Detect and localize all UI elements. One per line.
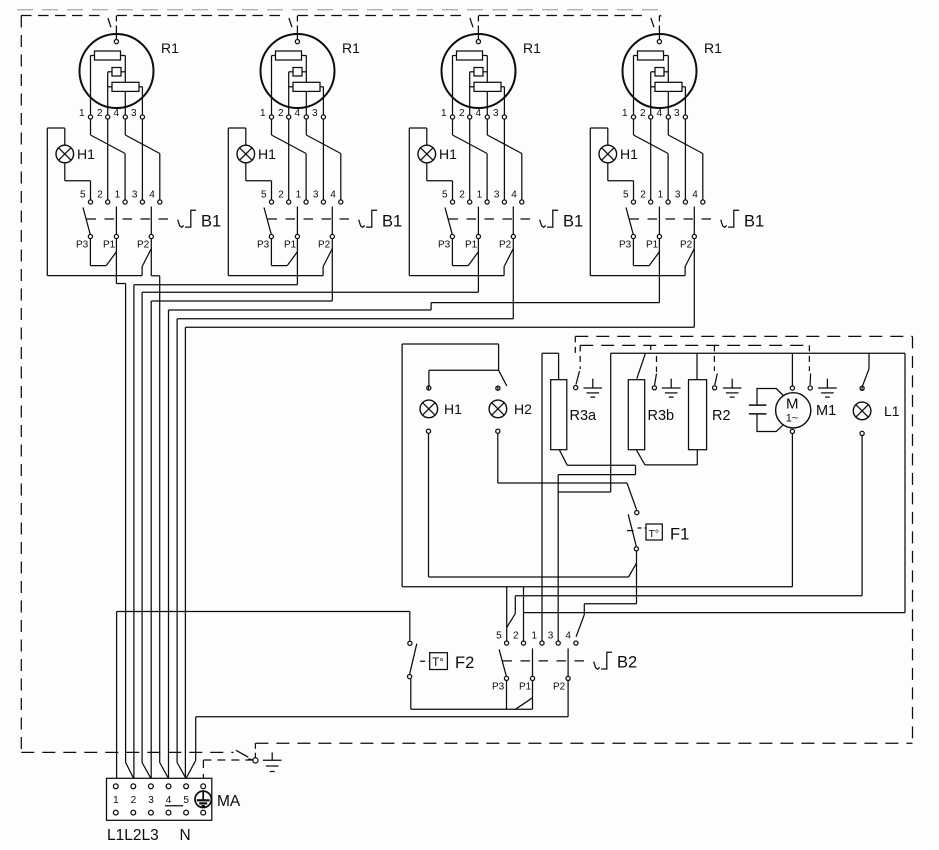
wire oven top tie (R3b R2 M1 L1) [611,353,905,492]
switch B1 contact P2 blade [150,207,152,235]
oven dashed enclosure top [575,335,912,337]
node H1 bottom [426,429,430,433]
wire pin3 to switch terminal 3 [141,119,143,200]
svg-text:R1: R1 [523,40,541,56]
svg-text:3: 3 [131,108,137,119]
wire lamp top to P2 branch [409,128,513,276]
switch B1 contact P1 blade [477,207,479,235]
node M1 top [790,386,794,390]
node H1 top [427,386,431,390]
svg-text:4: 4 [476,108,482,119]
resistor R1 element 1 [453,51,488,60]
svg-text:4: 4 [511,190,517,201]
node pin 2 [106,115,110,119]
node pin 4 [666,115,670,119]
hotplate R1 body [623,34,697,108]
bus line 8 (burner4 P2) [184,327,186,778]
wire burner2 P2 to bus [151,239,332,301]
node M1 bottom [790,429,794,433]
wire neutral rail to MA1 [117,612,410,779]
wire oven tie right drop [524,353,906,612]
wire lamp top to P2 branch [228,128,332,276]
svg-text:B1: B1 [382,213,402,231]
wire oven common rail [402,586,792,588]
switch B1 mechanical link (dashed) [87,218,171,220]
switch contact for lamp H2 [499,370,507,386]
MA bridge 4-5 [165,805,183,807]
svg-text:L1: L1 [884,403,900,419]
resistor R1 element 3 [470,82,505,91]
wire pin4 to switch terminal 4 [668,119,703,200]
node P3 [269,234,273,238]
wire pin3 to switch terminal 3 [503,119,505,200]
svg-text:P1: P1 [646,240,659,251]
node switch terminal 5 [631,200,635,204]
svg-text:4: 4 [330,190,336,201]
svg-text:4: 4 [657,108,663,119]
switch B2 contact P1 blade [532,648,534,676]
node B2 terminal 2 [521,641,525,645]
node P3 [450,234,454,238]
node switch terminal 2 [468,200,472,204]
node pin 3 [140,115,144,119]
svg-text:F2: F2 [455,654,474,672]
wire R3b bottom [636,450,697,465]
switch B1 actuator symbol [359,210,377,227]
node MA col1 terminals [113,784,118,815]
wire M1 top feed [791,353,793,386]
svg-text:3: 3 [674,108,680,119]
lamp H1 (oven) [420,400,438,418]
switch B1 actuator symbol [540,210,558,227]
heater R2 [689,380,707,450]
node P3 [88,234,92,238]
ground symbol near R3b [662,379,681,397]
wire pin4 vertical [667,56,669,115]
node pin 4 [123,115,127,119]
node pin 2 [649,115,653,119]
svg-text:2: 2 [459,190,465,201]
ground symbol near MA [263,752,282,771]
earth branch contact on border [236,750,258,763]
wire pin3 [322,87,324,115]
svg-text:R3a: R3a [570,408,598,424]
svg-text:P3: P3 [438,240,451,251]
capacitor C (motor) [749,389,784,432]
wire lamp bottom to terminal 5 [427,163,453,200]
wire earth dashed to oven (inner bottom dashed) [255,743,912,757]
thermostat F1 [627,510,662,550]
node P2 [511,234,515,238]
svg-text:1: 1 [113,795,119,806]
wire R3 bottoms to feed tie [558,491,611,493]
node switch terminal 1 [123,200,127,204]
switch B1 contact P2 blade [331,207,333,235]
node switch terminal 2 [287,200,291,204]
svg-text:5: 5 [623,190,629,201]
node switch terminal 3 [683,200,687,204]
bus line 7 (burner3 P2) [176,319,178,763]
svg-text:H1: H1 [258,146,276,162]
wire burner3 P1 to bus [142,239,478,293]
hotplate R1 body [261,34,335,108]
bus line 5 (burner1 P2) [159,276,161,763]
svg-text:R1: R1 [704,40,722,56]
bus line 2 (burner2 P1) [133,285,135,779]
wire pin4 vertical [305,56,307,115]
switch B1 contact P2 blade [693,207,695,235]
wire pin1 [90,56,92,115]
node B2 terminal 1 [540,641,544,645]
node L1 bottom [860,431,864,435]
wire pin1 to switch terminal 1 [272,119,307,200]
hotplate R1 body [80,34,154,108]
wire R3a bottom [558,450,635,642]
svg-text:H2: H2 [514,401,532,417]
svg-text:R1: R1 [161,40,179,56]
resistor R1 element 2 [470,68,488,77]
node pin 2 [287,115,291,119]
node B2 terminal 3 [556,641,560,645]
node B2 terminal 5 [505,641,509,645]
wire pin1 to switch terminal 1 [91,119,126,200]
switch B1 contact P3 blade [264,208,271,235]
switch B1 contact P3 blade [626,208,633,235]
node MA col2 terminals [131,784,136,815]
svg-text:B1: B1 [744,213,764,231]
node pin 4 [304,115,308,119]
svg-text:2: 2 [459,108,465,119]
wire top hob dashed bus [21,15,661,17]
svg-text:3: 3 [494,190,500,201]
terminal block MA [107,778,212,820]
node pin 4 [485,115,489,119]
node MA col6 terminals [201,784,206,815]
wire funnel bus7 to MA col5 [177,763,186,778]
node switch terminal 3 [140,200,144,204]
node pin 3 [321,115,325,119]
wire L1 bottom to B2 terminal 5 [507,386,862,627]
wire hotplate top drop (dashed) [289,16,298,39]
svg-text:MA: MA [217,793,241,810]
svg-text:2: 2 [640,190,646,201]
node pin 1 [631,115,635,119]
wire pin2 [288,72,290,115]
resistor R1 element 1 [272,51,307,60]
motor M1 [776,393,811,428]
svg-text:1: 1 [115,190,121,201]
border bottom dashed [21,751,233,753]
svg-text:5: 5 [261,190,267,201]
thermostat F2 [408,612,448,679]
wire R3a feed from B2 terminal 1 [542,353,559,641]
node H2 bottom [496,429,500,433]
switch B1 mechanical link (dashed) [449,218,533,220]
node pin 1 [269,115,273,119]
svg-text:P2: P2 [137,240,150,251]
lamp H1 [599,145,617,163]
wire P3 to P1 jog [90,239,116,266]
wire burner3 P2 to bus [177,239,513,319]
resistor R1 element 2 [108,68,126,77]
border left dashed [20,16,22,753]
svg-text:2: 2 [97,108,103,119]
svg-text:3: 3 [313,190,319,201]
switch B1 mechanical link (dashed) [630,218,714,220]
wire hotplate top drop (dashed) [470,16,479,39]
lamp L1 (oven light) [853,402,871,420]
resistor R1 element 3 [108,82,143,91]
wire P3 to P1 jog [452,239,478,266]
switch B1 contact P1 blade [658,207,660,235]
wire pin3 [141,87,143,115]
node switch terminal 2 [106,200,110,204]
wire F2 lower to B2 P3/P1 [411,679,533,709]
node pin 1 [88,115,92,119]
svg-text:1: 1 [477,190,483,201]
wire P3 to P1 jog [633,239,659,266]
svg-text:P3: P3 [492,682,505,693]
svg-text:4: 4 [166,795,172,806]
svg-text:P1: P1 [284,240,297,251]
node H2 top [496,386,500,390]
svg-text:5: 5 [80,190,86,201]
svg-text:B2: B2 [617,654,637,672]
node pin 1 [450,115,454,119]
svg-text:T°: T° [649,528,660,540]
svg-text:3: 3 [493,108,499,119]
wire B2 P3 to P1 jog [515,698,532,710]
wire funnel B2P2 to MA col5 [186,760,195,778]
wire burner1 P1 to bus [116,239,125,284]
svg-text:3: 3 [675,190,681,201]
node P1 [295,234,299,238]
wire lamp bottom to terminal 5 [65,163,91,200]
wire pin3 to switch terminal 3 [684,119,686,200]
node switch terminal 4 [701,200,705,204]
resistor R1 element 1 [634,51,669,60]
wire oven lamps feed box [402,344,499,587]
svg-text:4: 4 [149,190,155,201]
oven earth dashed bus [580,344,809,346]
ground symbol near R2 [723,379,742,397]
lamp H1 [418,145,436,163]
svg-text:2: 2 [513,631,519,642]
lamp H1 [237,145,255,163]
wire pin1 [271,56,273,115]
hotplate/switch group 4 [590,16,764,276]
wire top hob dashed bus (upper faint) [17,9,660,11]
svg-text:P3: P3 [76,240,89,251]
node P1 [657,234,661,238]
switch B2 mechanical link (dashed) [503,660,587,662]
node P1 [476,234,480,238]
svg-text:4: 4 [295,108,301,119]
hotplate/switch group 3 [409,16,583,276]
wire pin1 [452,56,454,115]
wire B2 P2 to MA [196,681,568,761]
hotplate R1 body [442,34,516,108]
switch B1 contact P1 blade [296,207,298,235]
node hotplate frame terminal [295,40,299,44]
switch B2 contact P3 blade [499,649,506,676]
wire lamp bottom to terminal 5 [608,163,634,200]
wire pin1 [633,56,635,115]
node MA col4 terminals [166,784,171,815]
wire pin2 [650,72,652,115]
svg-text:H1: H1 [439,146,457,162]
wire lamp bottom to terminal 5 [246,163,272,200]
node P2 [149,234,153,238]
svg-text:1: 1 [658,190,664,201]
svg-text:H1: H1 [620,146,638,162]
wire pin4 to switch terminal 4 [306,119,341,200]
wire M1 bottom [791,434,793,587]
svg-text:3: 3 [312,108,318,119]
resistor R1 element 3 [651,82,686,91]
node B2 P3 [504,676,508,680]
switch B1 contact P3 blade [83,208,90,235]
wire B2 terminal 2 drop [523,587,525,641]
svg-text:R2: R2 [712,408,731,424]
resistor R1 element 1 [91,51,126,60]
lamp H2 (oven) [489,400,507,418]
node pin 3 [683,115,687,119]
wire pin2 to switch terminal 2 [288,119,290,200]
svg-text:L1L2L3: L1L2L3 [107,827,159,844]
node P2 [330,234,334,238]
svg-text:2: 2 [97,190,103,201]
switch contact R3b feed [637,353,646,378]
earth link R2 [713,345,718,390]
svg-text:H1: H1 [444,401,462,417]
svg-text:2: 2 [278,108,284,119]
svg-text:R1: R1 [342,40,360,56]
lamp H1 [56,145,74,163]
switch B1 contact P1 blade [115,207,117,235]
wire pin4 to switch terminal 4 [487,119,522,200]
wire pin4 vertical [124,56,126,115]
wire burner4 P1 to bus [169,239,660,310]
svg-text:P3: P3 [257,240,270,251]
node hotplate frame terminal [657,40,661,44]
svg-text:5: 5 [442,190,448,201]
switch B2 contact P2 blade [567,648,569,676]
node switch terminal 1 [304,200,308,204]
svg-text:P2: P2 [680,240,693,251]
bus line 3 (burner3 P1) [141,292,143,762]
wire burner1 P2 to bus [151,239,159,276]
node P1 [114,234,118,238]
wire pin2 to switch terminal 2 [650,119,652,200]
svg-text:1: 1 [260,108,266,119]
node MA col5 terminals [184,784,189,815]
wire lamp top to P2 branch [590,128,694,276]
svg-text:1~: 1~ [786,413,799,425]
switch B1 contact P2 blade [512,207,514,235]
border right dashed [912,336,914,743]
svg-text:P3: P3 [619,240,632,251]
MA earth symbol [195,791,211,807]
wire L1 feed with switch contact [862,353,869,386]
wire F1 lower to B2 terminal 4 [576,551,636,637]
wire pin4 to switch terminal 4 [125,119,160,200]
node switch terminal 2 [649,200,653,204]
hotplate/switch group 1 [47,16,221,276]
wire B2 P3 drop [506,681,508,710]
heater R3a [551,380,567,450]
ground symbol near R3a [584,379,603,397]
node switch terminal 5 [269,200,273,204]
node hotplate frame terminal [476,40,480,44]
svg-text:4: 4 [114,108,120,119]
svg-text:2: 2 [131,795,137,806]
wire burner4 P2 to bus [185,239,694,328]
wire lamp top to P2 branch [47,128,151,276]
node switch terminal 3 [321,200,325,204]
node switch terminal 1 [666,200,670,204]
node MA col3 terminals [149,784,154,815]
wire R2 feed [696,353,698,379]
wire B2 P1 drop [532,681,534,710]
wire pin2 [469,72,471,115]
wire pin2 [107,72,109,115]
wire pin3 to switch terminal 3 [322,119,324,200]
svg-text:P1: P1 [519,682,532,693]
svg-text:5: 5 [496,631,502,642]
earth link M1 [808,345,812,390]
svg-text:P2: P2 [499,240,512,251]
wire B2 terminal 5 neutral drop [506,587,508,641]
wire funnel bus5 to MA col4 [160,763,169,778]
svg-text:4: 4 [565,631,571,642]
svg-text:M: M [786,396,799,413]
node pin 3 [502,115,506,119]
ground symbol near M1 [818,379,837,397]
wire pin3 [503,87,505,115]
svg-text:B1: B1 [201,213,221,231]
svg-text:T°: T° [432,657,444,669]
svg-text:P2: P2 [318,240,331,251]
node switch terminal 4 [520,200,524,204]
svg-text:5: 5 [183,795,189,806]
svg-text:P1: P1 [103,240,116,251]
wire funnel bus1 to MA col2 [126,763,134,778]
wire pin2 to switch terminal 2 [107,119,109,200]
node switch terminal 1 [485,200,489,204]
svg-text:1: 1 [296,190,302,201]
node B2 P2 [566,676,570,680]
bus line 4 (burner2 P2) [150,301,152,778]
resistor R1 element 2 [289,68,307,77]
svg-text:1: 1 [441,108,447,119]
svg-text:F1: F1 [670,526,689,544]
node B2 P1 [530,676,534,680]
node B2 terminal 4 [574,641,578,645]
wire burner2 P1 to bus [134,239,298,285]
svg-text:1: 1 [532,631,538,642]
wire earth dashed to MA col6 [203,760,252,786]
svg-text:P2: P2 [553,682,566,693]
resistor R1 element 2 [651,68,669,77]
wire P3 to P1 jog [271,239,297,266]
node switch terminal 4 [339,200,343,204]
resistor R1 element 3 [289,82,324,91]
node P3 [631,234,635,238]
wire pin4 vertical [486,56,488,115]
svg-text:H1: H1 [77,146,95,162]
earth link R3a (dashed drops + contact) [574,336,581,389]
